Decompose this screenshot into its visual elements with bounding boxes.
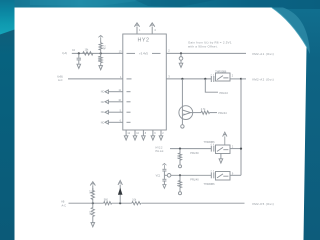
svg-text:HY2: HY2 xyxy=(138,38,150,44)
node junction at divider xyxy=(100,52,102,54)
wire output row pin 3 xyxy=(166,78,211,80)
power VCC arrow above pull-up xyxy=(98,35,103,41)
capacitor lower VC1 xyxy=(162,175,166,184)
wire right rail xyxy=(240,79,242,175)
IC bottom pin 8 ground xyxy=(142,130,146,140)
svg-text:I(-A): I(-A) xyxy=(62,51,67,55)
svg-text:A-C: A-C xyxy=(62,203,67,207)
svg-text:PRL/40: PRL/40 xyxy=(190,178,199,181)
resistor 10k bottom (horizontal) xyxy=(132,202,141,205)
svg-text:4: 4 xyxy=(213,171,214,173)
power VCC arrow bottom divider xyxy=(90,182,95,193)
wire PRL/10 loop xyxy=(205,79,218,92)
NC pin 10 xyxy=(105,100,131,104)
svg-text:A-C: A-C xyxy=(58,78,63,82)
coupling pins of K1 xyxy=(211,76,214,82)
ground under VC1 xyxy=(163,185,166,189)
svg-text:4: 4 xyxy=(213,74,214,76)
ground under C2 xyxy=(77,64,81,68)
node junction bottom divider xyxy=(92,202,94,204)
power VCC arrow pin 4 (IC top) xyxy=(150,23,155,34)
node junction row3 xyxy=(179,148,181,150)
wire rail to VM2-A2 label xyxy=(241,78,246,80)
wire row3 xyxy=(170,148,211,150)
ground under testpoint xyxy=(179,63,183,67)
svg-text:PRL/10: PRL/10 xyxy=(220,92,229,95)
node junction on VO1 xyxy=(180,52,182,54)
relay K2 THR30B6 xyxy=(216,145,231,154)
power VCC arrow above K2 xyxy=(223,132,227,145)
svg-text:NC: NC xyxy=(101,101,105,104)
IC U1 HY2 body xyxy=(123,34,167,130)
terminal circle row4 xyxy=(179,192,182,195)
ground under K2 xyxy=(219,154,223,164)
capacitor C2 xyxy=(77,53,81,64)
resistor R 2.7k xyxy=(201,111,210,114)
relay K1 THR30B6 xyxy=(216,73,231,81)
svg-text:4: 4 xyxy=(211,144,212,146)
wire K3 output xyxy=(230,174,241,176)
IC bottom pin 9 ground xyxy=(151,130,155,140)
node junction row4 xyxy=(179,174,181,176)
ground bottom divider xyxy=(91,223,95,227)
resistor pull-down 100k (vertical) xyxy=(99,53,102,65)
base wire xyxy=(191,112,202,114)
IC bottom pin 12 ground xyxy=(124,130,128,140)
svg-text:HY2.2: HY2.2 xyxy=(156,146,164,149)
IC bottom pin 10 ground xyxy=(133,130,137,140)
svg-text:VM2-A1 (Out): VM2-A1 (Out) xyxy=(252,52,274,56)
resistor pull-down bottom (vertical) xyxy=(91,203,94,222)
coupling pins of K2 xyxy=(211,146,214,152)
svg-text:VM2-A2 (Out): VM2-A2 (Out) xyxy=(252,78,274,82)
svg-text:4: 4 xyxy=(211,74,212,76)
resistor pull-up bottom (vertical) xyxy=(91,188,94,203)
wire row4 xyxy=(171,174,211,176)
svg-text:NC: NC xyxy=(101,91,105,94)
power VCC arrow pin 1 (IC top) xyxy=(134,23,139,34)
node junction rail mid xyxy=(240,148,242,150)
wire K1 output xyxy=(230,78,241,80)
coupling pins of K3 xyxy=(211,172,214,178)
svg-text:4: 4 xyxy=(211,171,212,173)
svg-text:PRL/44: PRL/44 xyxy=(218,112,227,115)
power VCC arrow VC1 stack xyxy=(162,163,166,169)
wire row pin 1 input xyxy=(68,78,123,80)
wire bottom row xyxy=(69,202,245,204)
node junction rail top xyxy=(240,78,242,80)
node junction at C2 xyxy=(78,52,80,54)
svg-text:Pin out: Pin out xyxy=(156,150,164,153)
svg-text:PRL/30: PRL/30 xyxy=(190,152,199,155)
node junction to transistor xyxy=(181,78,183,80)
svg-text:100k: 100k xyxy=(97,56,99,62)
svg-text:VC1: VC1 xyxy=(156,174,161,177)
svg-text:560: 560 xyxy=(104,198,109,201)
svg-text:I(+B): I(+B) xyxy=(57,74,63,78)
wire output VO1 row xyxy=(166,52,246,54)
NC pin 11 xyxy=(105,90,131,94)
emitter terminal circle xyxy=(181,125,184,128)
svg-text:2.7k: 2.7k xyxy=(201,108,206,111)
svg-text:NC: NC xyxy=(101,111,105,114)
testpoint circle under VO1 xyxy=(179,53,183,63)
ground under pull-down xyxy=(99,66,103,70)
svg-text:4: 4 xyxy=(213,144,214,146)
net arrow (filled) xyxy=(118,180,123,203)
capacitor upper VC1 xyxy=(162,169,167,175)
node circle VC1 xyxy=(167,174,171,178)
svg-text:+3.4V5: +3.4V5 xyxy=(139,52,148,56)
wire input row pin 13 xyxy=(72,52,123,54)
NC pin 6 xyxy=(105,121,131,125)
node junction to PRL/10 loop xyxy=(204,78,206,80)
relay K3 THR30B6 xyxy=(216,172,231,181)
svg-text:THR30B6: THR30B6 xyxy=(215,70,227,73)
transistor Q1 xyxy=(179,79,193,125)
wire K2 output xyxy=(230,148,241,150)
NC pin 5 xyxy=(105,110,131,114)
svg-text:VM2-K5 (Out): VM2-K5 (Out) xyxy=(252,202,274,206)
svg-text:I-B: I-B xyxy=(61,200,65,204)
svg-text:with a 90mv Offset.: with a 90mv Offset. xyxy=(188,45,218,49)
wire base to PRL/44 xyxy=(210,112,218,114)
resistor 2.2 row3 (vertical) xyxy=(178,149,181,165)
terminal circle row3 xyxy=(179,165,182,168)
svg-text:THR30B6: THR30B6 xyxy=(204,183,216,186)
resistor R2 10k (horizontal) xyxy=(83,52,93,55)
IC bottom pin 7 ground xyxy=(159,130,163,140)
resistor 560 (horizontal) xyxy=(104,202,112,205)
node junction at arrow xyxy=(119,202,121,204)
svg-text:NC: NC xyxy=(101,121,105,124)
resistor pull-up 2.2k (vertical) xyxy=(99,41,102,54)
resistor 2.2 row4 (vertical) xyxy=(178,175,181,191)
